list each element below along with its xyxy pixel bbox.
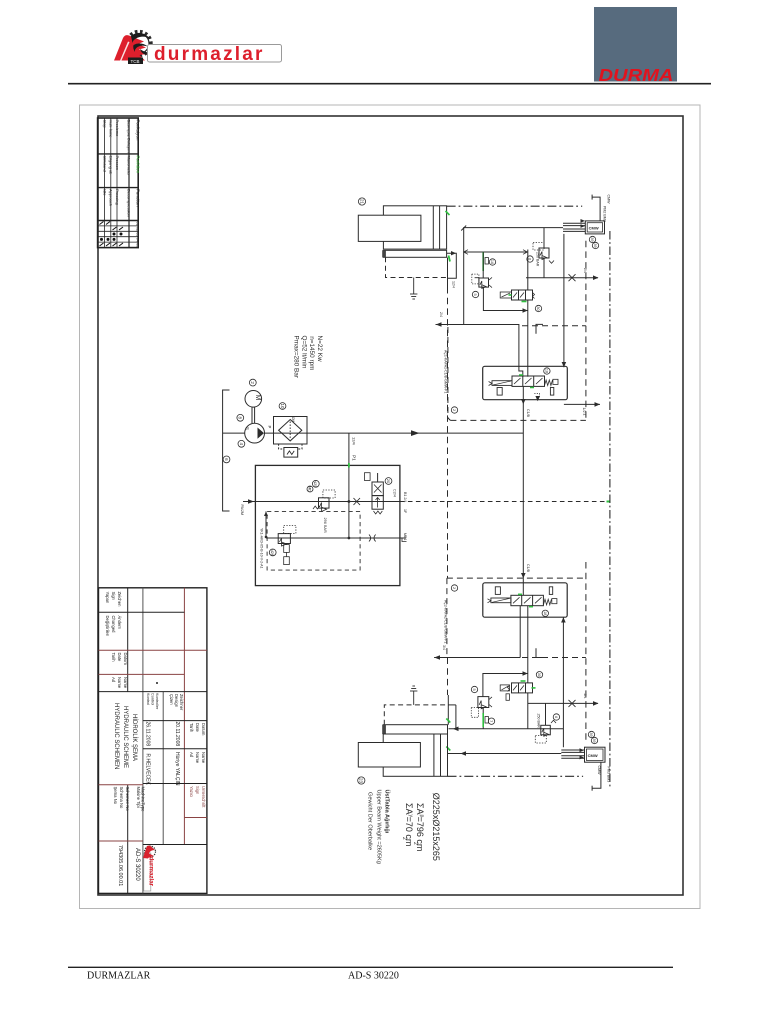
valve symbol bbox=[512, 376, 545, 386]
hook to gauge PM3 bbox=[592, 762, 601, 788]
svg-text:MB1: MB1 bbox=[403, 533, 407, 540]
svg-text:CMW: CMW bbox=[588, 753, 598, 758]
tabs (above symbol) bbox=[495, 587, 500, 595]
svg-text:39: 39 bbox=[590, 237, 594, 241]
svg-text:Zeichner: Zeichner bbox=[179, 694, 184, 711]
green pilot line lower bbox=[482, 708, 484, 730]
spring right bbox=[543, 599, 551, 605]
wire: rod port loop bbox=[447, 253, 456, 278]
svg-text:26.11.2008: 26.11.2008 bbox=[145, 722, 151, 747]
svg-text:Presleme: Presleme bbox=[115, 120, 120, 138]
labels 39 lower bbox=[591, 737, 597, 743]
wire: off-page right bbox=[564, 403, 600, 405]
svg-text:Yazıcı: Yazıcı bbox=[189, 786, 194, 797]
svg-text:Upper Beam Weight =2605Kg: Upper Beam Weight =2605Kg bbox=[376, 790, 382, 864]
top rail (dash-dot) bbox=[447, 205, 583, 207]
svg-text:n=1450 rpm: n=1450 rpm bbox=[308, 336, 315, 370]
svg-text:250 BAR: 250 BAR bbox=[537, 714, 541, 729]
label 4 bbox=[238, 440, 245, 447]
tabs bbox=[497, 388, 502, 396]
weight text block bbox=[367, 790, 441, 864]
svg-text:N=22 Kw: N=22 Kw bbox=[316, 336, 323, 362]
svg-text:5: 5 bbox=[472, 688, 476, 690]
svg-text:YK1-AKD-05-B-10-V-2-A1: YK1-AKD-05-B-10-V-2-A1 bbox=[260, 528, 264, 569]
drain dashed lower bbox=[384, 705, 448, 725]
logo durmazlar red swoosh bbox=[114, 35, 147, 60]
svg-text:39: 39 bbox=[593, 243, 597, 247]
svg-text:Name: Name bbox=[195, 752, 200, 764]
svg-text:Makine Tipi: Makine Tipi bbox=[136, 787, 141, 808]
svg-text:PM2 BM2: PM2 BM2 bbox=[603, 206, 607, 222]
label 30 bbox=[535, 305, 541, 311]
proportional valve U2 block (lower) bbox=[483, 583, 567, 617]
svg-text:durmazlar: durmazlar bbox=[154, 44, 265, 65]
labels 1,16 bbox=[485, 258, 488, 265]
solenoid valve row lower bbox=[512, 683, 533, 693]
proportional solenoid left bbox=[491, 598, 511, 603]
svg-text:N25: N25 bbox=[313, 480, 318, 488]
svg-text:30: 30 bbox=[536, 306, 540, 310]
drain long-dash line Y lower bbox=[447, 658, 449, 696]
svg-text:Sign: Sign bbox=[195, 786, 200, 795]
svg-text:6: 6 bbox=[554, 716, 558, 718]
corner junction A-line bbox=[436, 228, 563, 325]
svg-text:Decompression: Decompression bbox=[126, 189, 131, 217]
svg-text:Stop: Stop bbox=[102, 120, 107, 129]
svg-text:Datum: Datum bbox=[123, 653, 128, 666]
svg-text:CMW: CMW bbox=[589, 226, 599, 231]
svg-text:Q=52 lt/min: Q=52 lt/min bbox=[300, 336, 307, 369]
wire: loop lower valve to riser bbox=[483, 674, 528, 697]
hook to gauge PM2 bbox=[592, 197, 600, 221]
svg-text:20: 20 bbox=[386, 479, 391, 484]
svg-text:30: 30 bbox=[537, 673, 541, 677]
label 21 bbox=[358, 198, 365, 205]
svg-text:21: 21 bbox=[359, 199, 364, 205]
svg-text:Kontrol: Kontrol bbox=[146, 693, 150, 705]
pilot valve AC/KAPA upper bbox=[479, 278, 489, 287]
wire: A branch jog bbox=[436, 325, 523, 377]
orifice on line bbox=[354, 498, 361, 505]
pilot valve AC/KAPA lower bbox=[478, 697, 489, 708]
footer rule bbox=[68, 966, 673, 968]
svg-text:Name: Name bbox=[201, 752, 206, 764]
motor M1 bbox=[245, 391, 262, 408]
wire: lower cross line to cylinder bbox=[434, 657, 520, 659]
small tab bbox=[506, 694, 509, 701]
svg-text:HYDRAULIC SCHEME: HYDRAULIC SCHEME bbox=[122, 706, 128, 768]
drain long-dash line Y bbox=[447, 287, 449, 578]
svg-text:AÇ2-KAPA2-C1/B-GMW-P1: AÇ2-KAPA2-C1/B-GMW-P1 bbox=[444, 600, 448, 643]
svg-text:3/4: 3/4 bbox=[442, 645, 446, 650]
wire: rod line lower bbox=[448, 753, 562, 755]
wire: riser lower bbox=[527, 606, 529, 683]
svg-text:39: 39 bbox=[589, 732, 593, 736]
directional valve V3 (2 pos) bbox=[372, 482, 383, 496]
svg-text:7: 7 bbox=[489, 720, 493, 722]
CMW upper port lines bbox=[563, 222, 585, 224]
wire: down from cross bbox=[447, 695, 449, 725]
wire: pressure line P bbox=[264, 432, 523, 434]
svg-text:Basınçsız Dolaşım: Basınçsız Dolaşım bbox=[126, 120, 131, 154]
dotted mark + arrow right bottom of block bbox=[534, 393, 539, 396]
svg-text:794305.06.00.01: 794305.06.00.01 bbox=[117, 845, 123, 886]
svg-text:2: 2 bbox=[452, 587, 456, 589]
svg-text:Ändern: Ändern bbox=[117, 616, 122, 630]
proportional valve block boundary (upper) bbox=[448, 327, 451, 420]
svg-text:R.HELVECEK: R.HELVECEK bbox=[145, 754, 151, 786]
svg-text:M: M bbox=[254, 395, 261, 401]
label 23 bbox=[358, 777, 365, 784]
svg-text:Idle: Idle bbox=[102, 189, 107, 196]
svg-text:Gewicht Der Oberbalke: Gewicht Der Oberbalke bbox=[367, 792, 373, 850]
title block mini durmazlar logo (rotated) bbox=[143, 845, 156, 891]
label 18 bbox=[542, 610, 548, 616]
svg-text:Name: Name bbox=[117, 677, 122, 689]
wire: rod port down bbox=[447, 258, 449, 288]
corner mark bbox=[536, 324, 543, 333]
svg-text:02: 02 bbox=[136, 227, 140, 231]
svg-text:Sign: Sign bbox=[111, 592, 116, 601]
svg-text:Manometer: Manometer bbox=[126, 156, 131, 177]
svg-text:2: 2 bbox=[452, 409, 456, 411]
long-dash boundary vertical bbox=[585, 241, 587, 326]
cylinder C2 piston bbox=[358, 743, 420, 768]
svg-text:Name: Name bbox=[123, 677, 128, 689]
svg-text:CMW: CMW bbox=[597, 766, 601, 776]
cylinder C2 barrel bbox=[383, 734, 447, 776]
svg-text:MD: MD bbox=[308, 486, 312, 492]
cylinder C1 seal lines bbox=[432, 206, 434, 249]
svg-text:Funktion: Funktion bbox=[136, 156, 141, 174]
svg-text:20.11.2008: 20.11.2008 bbox=[174, 722, 180, 747]
dashed pilot X-line bbox=[400, 501, 610, 503]
svg-text:250 BAR: 250 BAR bbox=[536, 252, 540, 267]
cylinder C2 seal lines bbox=[433, 734, 435, 776]
svg-text:16: 16 bbox=[490, 260, 494, 264]
header rule bbox=[68, 83, 711, 85]
cylinder C1 rod-side plate bbox=[383, 250, 446, 257]
svg-text:12/4: 12/4 bbox=[352, 437, 357, 446]
solenoid valve row upper bbox=[512, 290, 533, 300]
svg-text:18: 18 bbox=[543, 611, 547, 615]
svg-text:Date: Date bbox=[195, 723, 200, 733]
svg-text:Hüriye YALÇIN: Hüriye YALÇIN bbox=[174, 752, 180, 786]
function table (top-left) bbox=[98, 118, 139, 248]
bottom rail (dash-dot) bbox=[448, 775, 584, 777]
svg-text:S: S bbox=[245, 427, 250, 430]
wire: suction line to pump bbox=[223, 432, 245, 434]
manifold block M1 bbox=[255, 465, 400, 585]
relief valve 250BAR lower bbox=[545, 703, 547, 725]
svg-text:Yapan: Yapan bbox=[105, 592, 110, 604]
wire: X line upper bbox=[475, 277, 479, 279]
green marks lower cylinder ports bbox=[446, 719, 450, 723]
svg-text:HYDRAULIC SCHEMEN: HYDRAULIC SCHEMEN bbox=[113, 703, 119, 769]
green marks cylinder ports bbox=[446, 211, 450, 215]
labels 39 bbox=[589, 236, 595, 242]
svg-text:23: 23 bbox=[359, 778, 364, 784]
svg-text:Ad: Ad bbox=[111, 677, 116, 683]
svg-text:p: p bbox=[419, 815, 425, 818]
svg-text:2: 2 bbox=[401, 837, 407, 840]
svg-text:Pressing: Pressing bbox=[115, 189, 120, 205]
logo durmazlar TCB box bbox=[128, 58, 143, 65]
svg-text:Unterschrift: Unterschrift bbox=[201, 786, 206, 808]
svg-text:Değiştirilen: Değiştirilen bbox=[105, 616, 110, 637]
svg-text:Changed: Changed bbox=[111, 616, 116, 634]
svg-text:AD-S 30220: AD-S 30220 bbox=[348, 971, 399, 982]
pump P1 bbox=[245, 423, 265, 443]
svg-text:5: 5 bbox=[473, 293, 477, 295]
label 18 bbox=[544, 368, 550, 374]
wire: P1 into bottom block bbox=[522, 578, 524, 595]
proportional solenoid left bbox=[492, 381, 512, 386]
svg-text:AD-S 30220: AD-S 30220 bbox=[134, 848, 140, 881]
svg-text:C1/B: C1/B bbox=[526, 409, 530, 418]
wire: A-line down (to CMW lower) bbox=[562, 617, 564, 747]
svg-text:OM: OM bbox=[291, 417, 295, 423]
svg-text:Design: Design bbox=[174, 694, 179, 708]
svg-text:P1: P1 bbox=[352, 455, 357, 461]
svg-text:Çizen: Çizen bbox=[169, 694, 174, 705]
svg-text:Eilgang ab: Eilgang ab bbox=[109, 156, 114, 176]
wire: pilot line into manifold bbox=[243, 501, 255, 503]
svg-text:TCB: TCB bbox=[131, 59, 140, 64]
wire: A line down to valve block bbox=[563, 234, 565, 367]
svg-text:296 BAR: 296 BAR bbox=[323, 518, 327, 533]
header group bbox=[114, 32, 282, 66]
svg-text:Datum: Datum bbox=[201, 723, 206, 736]
svg-text:10: 10 bbox=[280, 403, 285, 409]
svg-text:Control: Control bbox=[151, 693, 155, 705]
valve symbol bbox=[511, 595, 544, 605]
filter F1 bbox=[274, 417, 308, 445]
tank symbol lower bbox=[413, 691, 415, 705]
check valve block CMW upper bbox=[585, 221, 604, 234]
proportional valve block boundary (lower) bbox=[446, 578, 448, 657]
svg-text:ΣA =70 cm: ΣA =70 cm bbox=[404, 803, 414, 846]
svg-text:HİDROLİK ŞEMA: HİDROLİK ŞEMA bbox=[131, 714, 138, 761]
svg-text:Şema No: Şema No bbox=[113, 787, 118, 805]
title block (bottom-left, rotated) bbox=[99, 588, 207, 894]
svg-text:CMW: CMW bbox=[607, 195, 611, 205]
logo durmazlar gear bbox=[127, 32, 151, 56]
logo durmazlar text box bbox=[148, 45, 282, 63]
proportional valve U1 block (upper) bbox=[483, 366, 568, 399]
green pilot line bbox=[482, 252, 484, 271]
logo DURMA bbox=[594, 7, 677, 85]
wire: P1 branch into manifold bbox=[348, 433, 350, 538]
svg-text:N26: N26 bbox=[270, 549, 275, 557]
svg-text:Zeichen: Zeichen bbox=[117, 592, 122, 608]
svg-text:04: 04 bbox=[136, 238, 140, 242]
flow arrow on P line bbox=[411, 430, 420, 436]
wire: lower internal line bbox=[266, 537, 406, 539]
cylinder C2 rod-side plate bbox=[383, 725, 447, 734]
check valve block CMW lower bbox=[585, 747, 606, 762]
svg-text:2/4: 2/4 bbox=[583, 268, 587, 273]
svg-text:Schema No: Schema No bbox=[119, 787, 124, 810]
wire: X line lower bbox=[528, 702, 598, 704]
svg-text:18: 18 bbox=[545, 369, 549, 373]
drain dashed from piston cap bbox=[386, 257, 448, 277]
svg-text:Hızlı İnme: Hızlı İnme bbox=[109, 120, 114, 139]
dash-dot boundary vertical right bbox=[609, 231, 611, 789]
tank symbol under dashed bbox=[413, 278, 415, 295]
green dots on valve bbox=[519, 374, 523, 376]
corner mark lower bbox=[536, 648, 543, 657]
wire: valve to solenoid loop bbox=[483, 287, 527, 310]
svg-text:Date: Date bbox=[117, 653, 122, 663]
label 8 bbox=[237, 414, 244, 421]
svg-text:Fonksiyon: Fonksiyon bbox=[136, 120, 141, 141]
svg-text:Kontroller: Kontroller bbox=[155, 693, 159, 710]
svg-text:12/4: 12/4 bbox=[452, 281, 456, 288]
shaft motor-pump bbox=[251, 407, 253, 423]
drawing frame bbox=[98, 116, 683, 895]
svg-text:Stillstand: Stillstand bbox=[102, 156, 107, 172]
svg-text:P: P bbox=[267, 426, 272, 429]
cylinder C1 barrel bbox=[383, 206, 446, 249]
green dots bbox=[518, 593, 522, 595]
tank T1 (suction bracket) bbox=[223, 390, 230, 511]
cylinder C1 piston bbox=[358, 215, 421, 241]
spring right bbox=[545, 380, 553, 386]
label 10 (filter) bbox=[279, 403, 286, 410]
label 6 bbox=[223, 456, 230, 463]
svg-text:DURMAZLAR: DURMAZLAR bbox=[87, 971, 151, 982]
svg-text:DURMA: DURMA bbox=[599, 65, 674, 85]
svg-text:MachineType: MachineType bbox=[141, 787, 146, 813]
svg-text:ÜstTabla Ağırlığı: ÜstTabla Ağırlığı bbox=[384, 790, 391, 834]
svg-text:Schemen No: Schemen No bbox=[125, 787, 130, 812]
svg-text:01: 01 bbox=[136, 222, 140, 226]
svg-text:Approach: Approach bbox=[109, 189, 114, 206]
wire: cross line y252 bbox=[464, 251, 528, 253]
svg-text:B1 2/4: B1 2/4 bbox=[403, 492, 407, 502]
svg-text:39: 39 bbox=[592, 738, 596, 742]
svg-text:C1/B: C1/B bbox=[526, 564, 530, 573]
label 2 (motor) bbox=[249, 379, 256, 386]
svg-text:C2/4: C2/4 bbox=[393, 489, 397, 497]
svg-text:Tarih: Tarih bbox=[189, 723, 194, 733]
sheet outer border bbox=[80, 105, 701, 909]
svg-text:AÇ1-KAPA1-C1/B-GMW-P1: AÇ1-KAPA1-C1/B-GMW-P1 bbox=[444, 350, 448, 393]
svg-text:2/4: 2/4 bbox=[583, 694, 587, 699]
label 30 lower bbox=[536, 672, 542, 678]
dashed pilot box inside manifold bbox=[267, 511, 360, 570]
svg-text:PM3 BM3: PM3 BM3 bbox=[607, 767, 611, 783]
svg-text:2/4: 2/4 bbox=[439, 312, 443, 317]
wire: P1 down from block bbox=[522, 386, 524, 578]
wire: main port line lower bbox=[449, 728, 564, 730]
svg-text:03: 03 bbox=[136, 232, 140, 236]
svg-text:Pmax=280 Bar: Pmax=280 Bar bbox=[293, 336, 300, 379]
svg-text:PA/2M: PA/2M bbox=[240, 505, 244, 516]
orifice symbol on lower line bbox=[369, 535, 376, 542]
svg-text:05: 05 bbox=[136, 243, 140, 247]
svg-text:Ad: Ad bbox=[189, 752, 194, 758]
svg-text:Ø225xØ215x265: Ø225xØ215x265 bbox=[431, 793, 441, 861]
svg-text:Pressen: Pressen bbox=[115, 156, 120, 171]
CMW lower port lines bbox=[561, 749, 584, 751]
svg-text:Tarih: Tarih bbox=[111, 653, 116, 663]
svg-text:durmazlar: durmazlar bbox=[148, 857, 155, 887]
wire: B-line down bbox=[519, 606, 521, 658]
relief valve 250BAR upper bbox=[543, 228, 545, 248]
filter bypass valve bbox=[279, 444, 284, 449]
wire: main internal line bbox=[255, 501, 400, 503]
motor/pump spec text bbox=[293, 336, 323, 379]
wire: P riser to valve block bbox=[527, 250, 529, 291]
pilot valve V2 bbox=[278, 534, 290, 544]
svg-text:Function: Function bbox=[136, 189, 141, 207]
relief valve V1 296BAR bbox=[319, 498, 330, 508]
